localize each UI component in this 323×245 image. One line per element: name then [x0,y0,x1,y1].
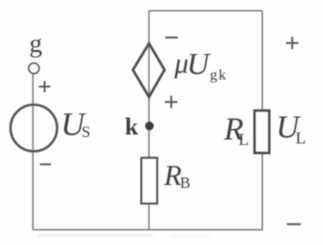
node k dot [145,122,154,131]
svg-text:L: L [296,129,306,148]
svg-text:k: k [125,114,139,140]
plus sign of U_S [39,81,50,92]
voltage source U_S circle [11,105,58,152]
minus sign of U_S [40,163,51,165]
wire right vertical [261,11,263,112]
resistor R_B [141,158,157,204]
terminal g open circle [29,63,39,73]
wire right vertical lower [261,152,263,231]
wire bottom horizontal [33,229,262,231]
svg-text:S: S [82,124,91,141]
minus sign of uUgk [165,37,178,39]
dependent source diamond [133,43,165,97]
svg-text:B: B [180,175,190,192]
resistor R_L [255,111,270,153]
minus sign of U_L [287,223,301,225]
svg-text:gk: gk [210,68,227,84]
plus sign of U_L [286,37,298,49]
svg-text:L: L [239,130,249,149]
svg-text:U: U [187,46,212,81]
wire left vertical [32,74,34,230]
plus sign of uUgk [165,96,178,108]
svg-text:g: g [29,29,42,58]
scan smudge (decorative) [38,234,153,238]
wire top horizontal [149,10,262,12]
wire middle vertical [148,11,150,231]
